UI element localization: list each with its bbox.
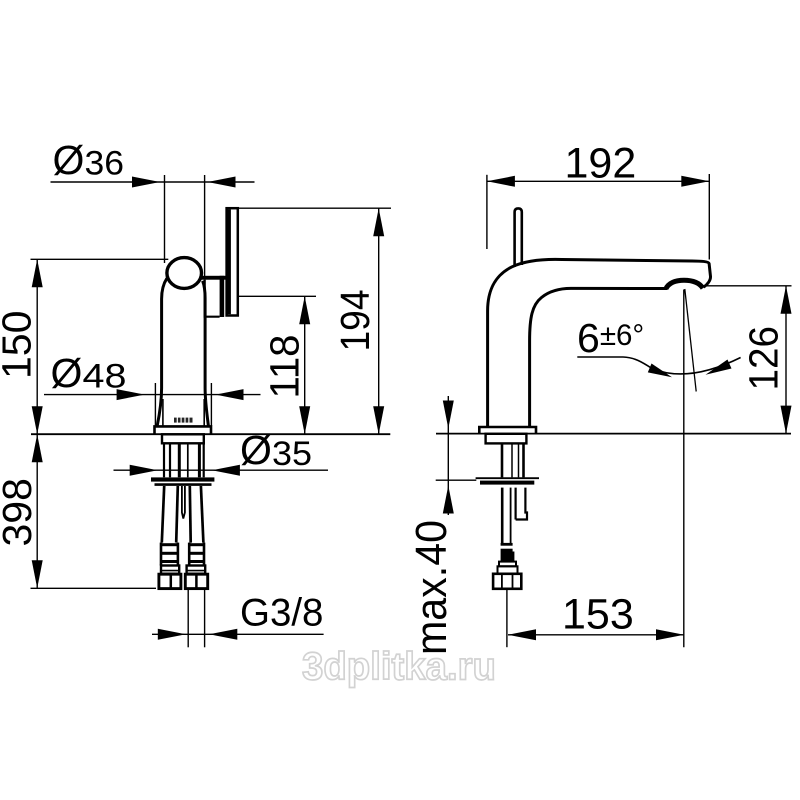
svg-text:36: 36 [85,145,125,183]
svg-text:3dplitka.ru: 3dplitka.ru [302,646,496,689]
svg-text:48: 48 [83,358,127,396]
svg-text:192: 192 [565,140,637,188]
svg-text:126: 126 [741,326,787,391]
svg-text:398: 398 [0,478,40,546]
svg-text:Ø: Ø [51,350,83,396]
svg-text:G3/8: G3/8 [240,592,323,635]
svg-text:150: 150 [0,311,40,379]
svg-text:35: 35 [272,435,312,473]
svg-text:118: 118 [261,335,307,399]
svg-text:Ø: Ø [53,137,85,183]
svg-text:max.40: max.40 [407,520,456,655]
svg-text:194: 194 [332,290,378,352]
svg-text:153: 153 [562,591,634,639]
svg-text:Ø: Ø [240,427,272,473]
